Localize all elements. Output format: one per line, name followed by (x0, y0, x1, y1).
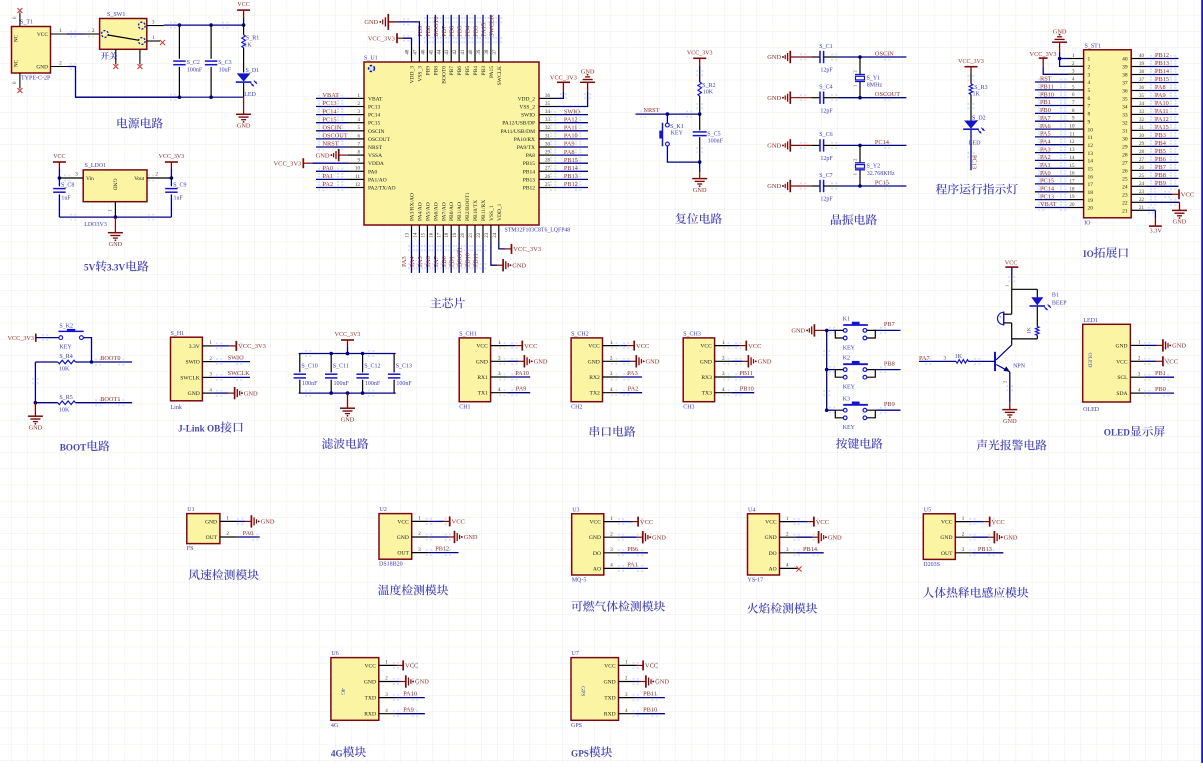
svg-text:RX1: RX1 (477, 375, 488, 381)
svg-text:PB15: PB15 (523, 161, 535, 167)
svg-text:43: 43 (445, 49, 450, 55)
svg-text:15: 15 (1088, 167, 1094, 173)
svg-text:PA10: PA10 (515, 370, 529, 377)
svg-text:VCC: VCC (992, 519, 1005, 526)
svg-text:S_R2: S_R2 (702, 83, 715, 89)
svg-text:GND: GND (112, 179, 118, 191)
svg-text:S_U1: S_U1 (364, 56, 378, 62)
svg-text:28: 28 (1139, 150, 1145, 155)
svg-text:VCC: VCC (645, 663, 658, 670)
svg-text:TX2: TX2 (590, 391, 600, 397)
svg-text:O: O (1104, 428, 1111, 438)
svg-text:15: 15 (421, 232, 426, 238)
svg-text:100nF: 100nF (302, 381, 318, 387)
svg-text:TX1: TX1 (478, 391, 488, 397)
svg-text:10K: 10K (703, 90, 714, 96)
svg-text:VCC_3V3: VCC_3V3 (687, 50, 713, 56)
svg-text:S_ST1: S_ST1 (1085, 44, 1101, 50)
svg-text:6: 6 (1088, 96, 1091, 102)
svg-text:18: 18 (445, 232, 450, 238)
svg-text:S: S (584, 748, 589, 758)
svg-text:PB5: PB5 (1155, 148, 1166, 155)
svg-text:PA2: PA2 (1040, 154, 1051, 161)
svg-text:VSS_3: VSS_3 (417, 66, 423, 82)
svg-text:S_K2: S_K2 (59, 324, 73, 330)
svg-text:VCC: VCC (452, 519, 465, 526)
svg-text:VSS_2: VSS_2 (519, 105, 535, 111)
svg-text:GND: GND (36, 65, 48, 71)
svg-text:GND: GND (534, 359, 548, 366)
svg-text:PA12/USB/DP: PA12/USB/DP (502, 121, 535, 127)
svg-text:25: 25 (545, 183, 551, 188)
svg-text:G: G (571, 748, 578, 758)
svg-text:39: 39 (1139, 62, 1145, 67)
svg-text:PA11: PA11 (564, 125, 578, 132)
svg-text:PA7/AO: PA7/AO (441, 202, 447, 221)
svg-text:PB3: PB3 (473, 26, 480, 37)
svg-text:23: 23 (1122, 193, 1128, 199)
svg-text:8MHz: 8MHz (867, 83, 883, 89)
svg-text:KEY: KEY (671, 131, 684, 137)
svg-text:100nF: 100nF (396, 381, 412, 387)
svg-text:TX3: TX3 (702, 391, 712, 397)
svg-text:PB12: PB12 (523, 186, 535, 192)
svg-text:10: 10 (1088, 127, 1094, 133)
svg-text:33: 33 (545, 118, 551, 123)
svg-text:GND: GND (758, 359, 772, 366)
svg-text:U1: U1 (187, 507, 194, 513)
svg-text:GND: GND (700, 359, 712, 365)
svg-text:PA3/RX/AO: PA3/RX/AO (410, 193, 416, 221)
svg-text:S_R1: S_R1 (246, 36, 259, 42)
svg-text:11: 11 (355, 175, 360, 180)
svg-text:S_C12: S_C12 (364, 364, 380, 370)
svg-text:VCC: VCC (700, 344, 712, 350)
svg-text:RX3: RX3 (701, 375, 712, 381)
svg-text:1K: 1K (1027, 327, 1033, 334)
svg-text:PB1/AO: PB1/AO (457, 202, 463, 221)
svg-text:BOOT1: BOOT1 (457, 247, 464, 267)
svg-text:PC13: PC13 (1040, 193, 1054, 200)
svg-text:O: O (66, 442, 73, 452)
svg-text:4: 4 (1088, 80, 1091, 86)
svg-text:14: 14 (413, 232, 418, 238)
svg-text:1K: 1K (955, 354, 963, 360)
svg-text:17: 17 (437, 232, 442, 238)
svg-text:V: V (119, 263, 126, 273)
svg-text:PB10: PB10 (740, 386, 754, 393)
svg-text:36: 36 (545, 94, 551, 99)
svg-text:13: 13 (1088, 151, 1094, 157)
svg-text:36: 36 (1122, 89, 1128, 95)
svg-text:PA3: PA3 (627, 370, 638, 377)
svg-text:GND: GND (589, 535, 601, 541)
svg-text:25: 25 (1139, 174, 1145, 179)
svg-text:VCC: VCC (816, 519, 829, 526)
svg-text:PA6: PA6 (425, 256, 432, 267)
svg-text:S_C6: S_C6 (819, 132, 832, 138)
svg-text:PA10/RX: PA10/RX (514, 137, 535, 143)
svg-text:GND: GND (646, 359, 660, 366)
svg-text:29: 29 (545, 151, 551, 156)
svg-text:PA12: PA12 (564, 116, 578, 123)
svg-text:PB14: PB14 (803, 546, 818, 553)
svg-text:k: k (200, 424, 206, 434)
svg-text:PB11: PB11 (1040, 84, 1054, 91)
svg-text:S_D1: S_D1 (246, 68, 260, 74)
svg-text:41: 41 (461, 49, 466, 55)
svg-text:35: 35 (545, 102, 551, 107)
svg-text:29: 29 (1122, 145, 1128, 151)
svg-text:GND: GND (767, 95, 781, 102)
svg-text:PA10: PA10 (1155, 100, 1169, 107)
svg-text:18: 18 (1070, 187, 1076, 192)
svg-text:PB7: PB7 (1155, 164, 1166, 171)
svg-text:PA10: PA10 (403, 691, 417, 698)
svg-text:17: 17 (1070, 179, 1076, 184)
svg-text:25: 25 (1122, 177, 1128, 183)
svg-text:22: 22 (1122, 201, 1128, 207)
svg-text:12pF: 12pF (820, 108, 833, 114)
svg-text:PC15: PC15 (875, 180, 889, 187)
svg-text:SCL: SCL (1117, 375, 1128, 381)
svg-text:RX2: RX2 (589, 375, 600, 381)
svg-text:OSCIN: OSCIN (875, 51, 894, 58)
svg-text:PA2: PA2 (628, 386, 639, 393)
svg-text:34: 34 (1139, 102, 1145, 107)
svg-text:16: 16 (1088, 174, 1094, 180)
svg-text:10uF: 10uF (219, 68, 232, 74)
svg-text:PA3: PA3 (401, 256, 408, 267)
svg-text:S_C10: S_C10 (301, 364, 317, 370)
svg-text:26: 26 (1139, 166, 1145, 171)
svg-text:KEY: KEY (843, 385, 856, 391)
svg-text:PB10/TX: PB10/TX (473, 200, 479, 221)
svg-text:OSCIN: OSCIN (323, 125, 342, 132)
svg-text:PA4: PA4 (1040, 138, 1051, 145)
svg-text:100nF: 100nF (334, 381, 350, 387)
svg-text:26: 26 (1122, 169, 1128, 175)
svg-text:3: 3 (1088, 72, 1091, 78)
svg-text:VCC: VCC (765, 520, 777, 526)
svg-text:31: 31 (1139, 126, 1145, 131)
svg-text:VDD_3: VDD_3 (410, 66, 416, 84)
svg-text:S_H1: S_H1 (171, 331, 185, 337)
svg-text:PA0: PA0 (323, 165, 334, 172)
svg-text:KEY: KEY (59, 345, 72, 351)
svg-text:PA15: PA15 (1155, 124, 1169, 131)
svg-text:PA0: PA0 (243, 530, 254, 537)
svg-text:VCC: VCC (237, 2, 249, 8)
svg-text:32.768KHz: 32.768KHz (867, 171, 895, 177)
svg-text:DO: DO (593, 551, 601, 557)
svg-text:PB0: PB0 (441, 256, 448, 267)
svg-text:S_CH3: S_CH3 (683, 332, 701, 338)
svg-text:29: 29 (1139, 142, 1145, 147)
svg-text:U5: U5 (924, 507, 931, 513)
svg-text:IO: IO (1084, 221, 1091, 227)
svg-text:PC14: PC14 (323, 108, 338, 115)
svg-text:PC15: PC15 (368, 121, 380, 127)
svg-text:U7: U7 (572, 651, 579, 657)
svg-text:10: 10 (1070, 125, 1076, 130)
svg-text:48: 48 (406, 49, 411, 55)
svg-text:PB9: PB9 (1155, 180, 1166, 187)
svg-text:VCC_3V3: VCC_3V3 (550, 74, 577, 81)
svg-text:27: 27 (1122, 161, 1128, 167)
svg-text:U2: U2 (380, 507, 387, 513)
svg-text:12pF: 12pF (820, 68, 833, 74)
svg-text:PB1: PB1 (449, 256, 456, 267)
svg-text:PA9/TX: PA9/TX (517, 145, 535, 151)
svg-text:17: 17 (1088, 182, 1094, 188)
svg-text:CH3: CH3 (683, 405, 694, 411)
svg-text:PB15: PB15 (564, 157, 578, 164)
svg-text:PB6: PB6 (1155, 156, 1166, 163)
svg-text:PC13: PC13 (971, 155, 978, 169)
svg-text:PA9: PA9 (1155, 92, 1166, 99)
svg-text:S_C3: S_C3 (218, 60, 231, 66)
svg-text:39: 39 (477, 49, 482, 55)
svg-text:PB1: PB1 (1040, 99, 1051, 106)
svg-text:1K: 1K (244, 43, 252, 49)
svg-text:PA1: PA1 (323, 173, 334, 180)
svg-text:GND: GND (693, 187, 707, 194)
svg-text:K3: K3 (843, 396, 850, 402)
svg-text:14: 14 (1070, 156, 1076, 161)
svg-text:PA15: PA15 (481, 23, 488, 37)
svg-text:12: 12 (355, 183, 361, 188)
svg-text:28: 28 (1122, 153, 1128, 159)
svg-text:4G: 4G (339, 688, 345, 695)
svg-text:VCC_3V3: VCC_3V3 (335, 332, 361, 338)
svg-text:VCC: VCC (640, 519, 653, 526)
svg-text:PC14: PC14 (368, 113, 380, 119)
svg-text:PB6: PB6 (457, 66, 463, 76)
svg-text:S_SW1: S_SW1 (107, 12, 125, 18)
svg-text:BOOT0: BOOT0 (433, 16, 440, 36)
svg-text:GND: GND (109, 241, 123, 248)
svg-text:VDD_2: VDD_2 (518, 96, 536, 102)
svg-text:GND: GND (29, 424, 43, 431)
svg-text:1uF: 1uF (61, 196, 71, 202)
svg-text:GND: GND (364, 680, 376, 686)
svg-text:OUT: OUT (206, 535, 218, 541)
svg-text:OUT: OUT (397, 551, 409, 557)
svg-text:PB6: PB6 (449, 26, 456, 37)
svg-text:Vin: Vin (86, 176, 94, 182)
svg-text:12pF: 12pF (820, 197, 833, 203)
svg-text:GND: GND (765, 535, 777, 541)
svg-text:D: D (1123, 428, 1130, 438)
svg-text:GND: GND (767, 183, 781, 190)
svg-text:PA4/AO: PA4/AO (417, 202, 423, 221)
svg-text:PB8: PB8 (425, 26, 432, 37)
svg-text:PB12: PB12 (1155, 52, 1169, 59)
svg-text:PA8: PA8 (1155, 84, 1166, 91)
svg-text:PB3: PB3 (1155, 132, 1166, 139)
svg-text:12: 12 (1088, 143, 1094, 149)
svg-text:GND: GND (652, 534, 666, 541)
svg-text:GND: GND (1004, 534, 1018, 541)
svg-text:PA5: PA5 (417, 256, 424, 267)
svg-text:PA10: PA10 (564, 133, 578, 140)
svg-text:42: 42 (453, 49, 458, 55)
svg-text:35: 35 (1122, 97, 1128, 103)
svg-text:10K: 10K (59, 407, 70, 413)
svg-text:PB13: PB13 (1155, 60, 1169, 67)
svg-text:S_R4: S_R4 (59, 354, 72, 360)
svg-text:46: 46 (421, 49, 426, 55)
svg-text:PB0/AO: PB0/AO (449, 202, 455, 221)
svg-text:20: 20 (1088, 206, 1094, 212)
svg-text:OSCIN: OSCIN (368, 129, 385, 135)
svg-text:SWIO: SWIO (186, 360, 200, 366)
svg-text:OSCOUT: OSCOUT (368, 137, 391, 143)
svg-text:PB1: PB1 (1155, 370, 1166, 377)
svg-text:31: 31 (545, 134, 551, 139)
svg-text:V: V (89, 263, 96, 273)
svg-text:7: 7 (1088, 104, 1091, 110)
svg-text:PB9: PB9 (425, 66, 431, 76)
svg-text:GND: GND (237, 123, 251, 130)
svg-text:Link: Link (171, 405, 182, 411)
svg-text:11: 11 (1088, 135, 1094, 141)
svg-text:PB9: PB9 (884, 401, 895, 408)
svg-text:PB14: PB14 (523, 169, 535, 175)
svg-text:16: 16 (1070, 172, 1076, 177)
svg-text:S_C9: S_C9 (173, 183, 186, 189)
svg-text:37: 37 (1122, 81, 1128, 87)
svg-text:PB10: PB10 (1040, 91, 1054, 98)
svg-text:U3: U3 (572, 507, 579, 513)
svg-text:38: 38 (1122, 73, 1128, 79)
svg-text:NC: NC (14, 34, 20, 42)
svg-text:G: G (336, 748, 343, 758)
svg-text:23: 23 (1139, 190, 1145, 195)
svg-text:PA11/USB/DM: PA11/USB/DM (501, 129, 536, 135)
svg-text:PA7: PA7 (433, 256, 440, 267)
svg-text:FS: FS (187, 546, 194, 552)
svg-text:12pF: 12pF (820, 156, 833, 162)
svg-text:DO: DO (769, 551, 777, 557)
svg-text:S_C1: S_C1 (819, 44, 832, 50)
svg-text:BOOT0: BOOT0 (441, 66, 447, 84)
svg-text:PB10: PB10 (465, 253, 472, 267)
svg-text:OLED: OLED (1086, 353, 1092, 368)
svg-text:RST: RST (1040, 76, 1052, 83)
svg-text:37: 37 (1139, 78, 1145, 83)
svg-text:AO: AO (593, 566, 601, 572)
svg-text:24: 24 (1139, 182, 1145, 187)
svg-text:GND: GND (476, 359, 488, 365)
svg-text:GND: GND (244, 390, 258, 397)
svg-text:VCC_3V3: VCC_3V3 (368, 35, 395, 42)
svg-text:PB12: PB12 (564, 181, 578, 188)
svg-text:23: 23 (485, 232, 490, 238)
svg-text:30: 30 (1139, 134, 1145, 139)
svg-text:PB14: PB14 (1155, 68, 1170, 75)
svg-text:PA2: PA2 (323, 181, 334, 188)
svg-text:T: T (80, 442, 86, 452)
svg-text:20: 20 (1070, 203, 1076, 208)
svg-text:TYPE-C-2P: TYPE-C-2P (21, 76, 51, 82)
svg-text:44: 44 (437, 49, 442, 55)
svg-text:PC13: PC13 (368, 105, 380, 111)
svg-text:PB11: PB11 (643, 691, 657, 698)
svg-text:BOOT0: BOOT0 (100, 355, 120, 362)
svg-text:13: 13 (406, 232, 411, 238)
svg-text:PC13: PC13 (323, 100, 337, 107)
svg-text:PB14: PB14 (564, 165, 579, 172)
svg-text:RXD: RXD (604, 712, 616, 718)
svg-text:VCC: VCC (589, 520, 601, 526)
svg-text:21: 21 (469, 232, 474, 238)
svg-text:11: 11 (1070, 132, 1075, 137)
svg-text:VCC: VCC (748, 343, 761, 350)
svg-text:OUT: OUT (941, 551, 953, 557)
svg-text:19: 19 (453, 232, 458, 238)
svg-text:GND: GND (767, 143, 781, 150)
svg-text:VCC: VCC (1165, 359, 1178, 366)
svg-text:GND: GND (1115, 343, 1127, 349)
svg-text:S_R5: S_R5 (59, 395, 72, 401)
svg-text:VCC: VCC (1116, 359, 1128, 365)
svg-text:PA2/TX/AO: PA2/TX/AO (368, 186, 396, 192)
svg-text:OLED: OLED (1083, 407, 1100, 413)
svg-text:GND: GND (655, 679, 669, 686)
svg-text:14: 14 (1088, 159, 1094, 165)
svg-text:GND: GND (415, 679, 429, 686)
svg-text:27: 27 (545, 167, 551, 172)
svg-text:PB0: PB0 (1155, 386, 1166, 393)
svg-text:GND: GND (828, 534, 842, 541)
svg-text:SWCLK: SWCLK (497, 66, 503, 85)
svg-text:PA3: PA3 (1040, 146, 1051, 153)
svg-text:NRST: NRST (368, 145, 383, 151)
svg-text:SWCLK: SWCLK (228, 370, 250, 377)
svg-text:TXD: TXD (365, 696, 377, 702)
svg-text:S_LDO1: S_LDO1 (85, 163, 107, 169)
svg-text:40: 40 (469, 49, 474, 55)
svg-text:S_CH2: S_CH2 (571, 332, 589, 338)
svg-text:VCC_3V3: VCC_3V3 (159, 154, 185, 160)
svg-text:PB13: PB13 (564, 173, 578, 180)
svg-text:VCC: VCC (588, 344, 600, 350)
svg-text:GND: GND (791, 328, 805, 335)
svg-text:VCC_3V3: VCC_3V3 (1030, 51, 1057, 58)
svg-text:MQ-5: MQ-5 (572, 578, 587, 584)
svg-text:GND: GND (261, 519, 275, 526)
svg-text:VCC_3V3: VCC_3V3 (958, 59, 984, 65)
svg-text:GND: GND (397, 535, 409, 541)
svg-text:PC14: PC14 (875, 139, 890, 146)
svg-text:K1: K1 (843, 317, 850, 323)
svg-text:100nF: 100nF (187, 68, 203, 74)
svg-text:20: 20 (461, 232, 466, 238)
svg-text:10: 10 (355, 167, 361, 172)
svg-text:22: 22 (477, 232, 482, 238)
svg-text:OSCOUT: OSCOUT (323, 133, 348, 140)
svg-text:VCC: VCC (37, 32, 48, 38)
svg-text:27: 27 (1139, 158, 1145, 163)
svg-text:SWIO: SWIO (228, 354, 245, 361)
svg-text:19: 19 (1070, 195, 1076, 200)
svg-text:VCC: VCC (604, 663, 616, 669)
svg-text:PB11: PB11 (473, 253, 480, 267)
svg-text:VCC_3V3: VCC_3V3 (238, 343, 266, 350)
svg-text:VCC_3V3: VCC_3V3 (273, 160, 301, 167)
